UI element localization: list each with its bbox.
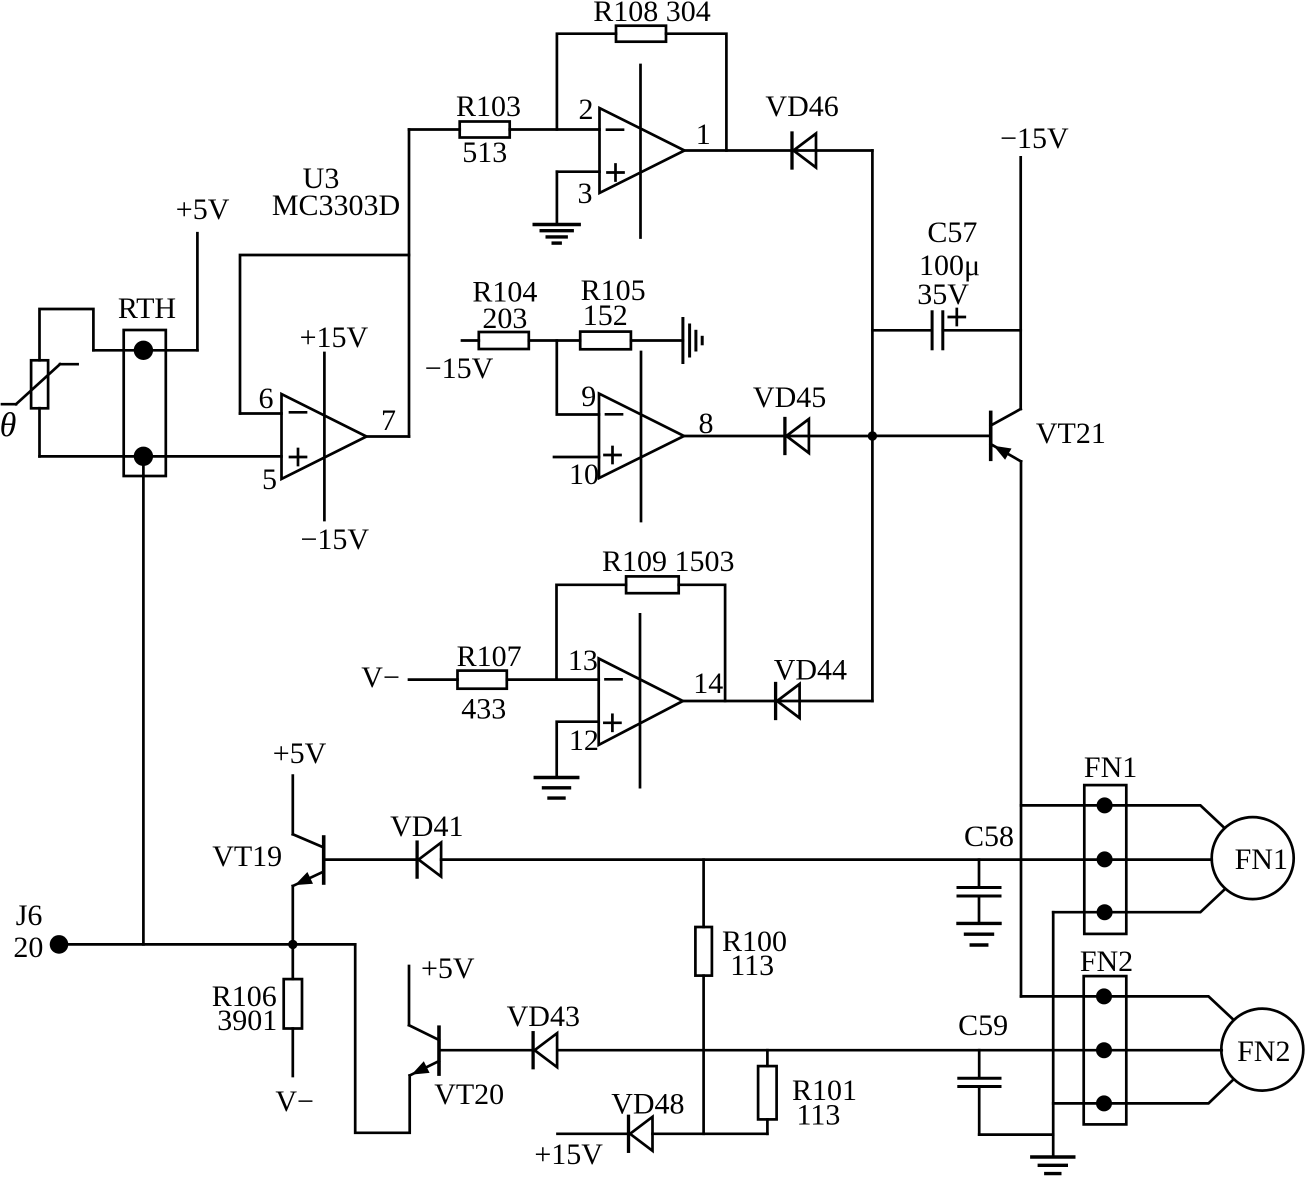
svg-text:R107: R107 bbox=[457, 640, 522, 673]
power rail line through U3A bbox=[639, 65, 642, 238]
svg-text:VD41: VD41 bbox=[390, 810, 463, 843]
svg-text:VD46: VD46 bbox=[765, 90, 838, 123]
resistor R105 152 bbox=[580, 274, 645, 349]
svg-text:C57: C57 bbox=[927, 216, 977, 249]
pin 6 bbox=[240, 382, 282, 415]
wire to FN2 pin1 bbox=[1021, 995, 1104, 998]
wire R103 right to pin 2 bbox=[510, 128, 600, 131]
connector FN2 bbox=[1080, 945, 1133, 1124]
pin 5 bbox=[262, 463, 277, 496]
diode VD41 bbox=[390, 810, 463, 877]
svg-text:+5V: +5V bbox=[421, 952, 475, 985]
pin 1 output wire bbox=[685, 118, 873, 151]
svg-text:C58: C58 bbox=[964, 820, 1014, 853]
wire RTH pin2 down to J6 row bbox=[142, 456, 145, 944]
transistor VT21 (PNP) bbox=[872, 409, 1106, 461]
svg-text:433: 433 bbox=[461, 693, 506, 726]
ground (main bottom) bbox=[1032, 1157, 1074, 1174]
svg-text:VT20: VT20 bbox=[434, 1078, 504, 1111]
pin 2 bbox=[579, 93, 594, 126]
svg-text:1: 1 bbox=[696, 118, 711, 151]
wire R104 to R105 bbox=[529, 339, 580, 342]
svg-text:VD48: VD48 bbox=[611, 1088, 684, 1121]
pin 10 stub bbox=[554, 457, 599, 491]
pin 12 bbox=[557, 722, 599, 777]
pin 7 bbox=[367, 404, 410, 437]
op-amp U3 section D (pins 13,12 -> 14) bbox=[599, 659, 683, 745]
node V- (below R106) bbox=[275, 1085, 314, 1118]
svg-text:R109 1503: R109 1503 bbox=[602, 545, 735, 578]
svg-text:3901: 3901 bbox=[217, 1004, 277, 1037]
svg-text:C59: C59 bbox=[958, 1009, 1008, 1042]
resistor R108 304 (feedback) bbox=[593, 0, 711, 42]
wire FN1 pin1 to fan bbox=[1105, 805, 1224, 827]
pin 14 output wire bbox=[683, 667, 873, 701]
node FN1 pin3 bbox=[1097, 904, 1113, 920]
wire R105 to ground bbox=[631, 339, 683, 342]
svg-text:5: 5 bbox=[262, 463, 277, 496]
wire VD48 to R100/R101 bottoms bbox=[653, 1132, 768, 1135]
svg-text:+5V: +5V bbox=[273, 737, 327, 770]
svg-text:R108 304: R108 304 bbox=[593, 0, 711, 28]
svg-text:J6: J6 bbox=[16, 899, 43, 932]
pin 9 bbox=[581, 380, 596, 413]
wire J6 row bbox=[59, 943, 355, 946]
power rail line through U3D bbox=[639, 614, 642, 787]
svg-text:8: 8 bbox=[699, 407, 714, 440]
resistor R109 1503 (feedback) bbox=[602, 545, 735, 593]
connector RTH bbox=[118, 292, 176, 476]
svg-text:7: 7 bbox=[381, 404, 396, 437]
svg-text:VD45: VD45 bbox=[753, 381, 826, 414]
svg-text:113: 113 bbox=[797, 1099, 841, 1132]
svg-text:FN2: FN2 bbox=[1080, 945, 1133, 978]
wire main vertical (VD46/VD45/VD44 to VT21 base) bbox=[871, 151, 874, 702]
svg-text:2: 2 bbox=[579, 93, 594, 126]
svg-text:13: 13 bbox=[568, 644, 598, 677]
wire to FN1 pin1 bbox=[1021, 804, 1105, 807]
node FN2 pin3 bbox=[1096, 1095, 1112, 1111]
svg-text:FN1: FN1 bbox=[1084, 751, 1137, 784]
wire VT20 base to VD43 bbox=[439, 1049, 533, 1052]
wire U3B feedback (7 to 6) bbox=[240, 255, 409, 414]
svg-text:6: 6 bbox=[259, 382, 274, 415]
svg-text:VD44: VD44 bbox=[774, 654, 847, 687]
transistor VT20 (NPN) bbox=[409, 1025, 504, 1111]
svg-text:9: 9 bbox=[581, 380, 596, 413]
ground (rotated, after R105) bbox=[683, 319, 702, 363]
svg-text:513: 513 bbox=[462, 136, 507, 169]
resistor R107 433 bbox=[457, 640, 522, 726]
op-amp U3 section A (pins 2,3 -> 1) bbox=[600, 108, 685, 193]
svg-text:VD43: VD43 bbox=[507, 1000, 580, 1033]
resistor R103 513 bbox=[456, 90, 521, 169]
svg-text:113: 113 bbox=[730, 949, 774, 982]
node FN1 pin1 bbox=[1097, 797, 1113, 813]
wire R107 to pin 13 bbox=[507, 678, 599, 681]
svg-text:V−: V− bbox=[361, 661, 400, 694]
resistor R101 113 bbox=[758, 1050, 857, 1134]
svg-text:FN2: FN2 bbox=[1237, 1035, 1290, 1068]
wire RTH pin2 row to op-amp pin5 bbox=[40, 455, 282, 458]
power +15V stub (VD48) bbox=[534, 1134, 628, 1171]
fan motor FN1 bbox=[1212, 817, 1294, 899]
svg-text:3: 3 bbox=[578, 177, 593, 210]
svg-text:+5V: +5V bbox=[176, 193, 230, 226]
transistor VT19 (NPN) bbox=[212, 834, 324, 944]
diode VD45 bbox=[753, 381, 826, 454]
svg-text:FN1: FN1 bbox=[1235, 843, 1288, 876]
pin 8 output wire bbox=[684, 407, 872, 440]
svg-text:20: 20 bbox=[13, 931, 43, 964]
wire R104/R105 node down to pin 9 bbox=[557, 341, 599, 415]
svg-text:203: 203 bbox=[482, 302, 527, 335]
diode VD46 bbox=[765, 90, 838, 168]
svg-text:−15V: −15V bbox=[1000, 122, 1069, 155]
svg-text:12: 12 bbox=[569, 724, 599, 757]
pin 3 bbox=[557, 172, 600, 224]
wire ground rail (FN pin3s) bbox=[1052, 912, 1055, 1156]
svg-text:V−: V− bbox=[275, 1085, 314, 1118]
wire thermistor bottom bbox=[38, 408, 41, 456]
node FN2 pin2 bbox=[1096, 1042, 1112, 1058]
node FN2 pin1 bbox=[1096, 988, 1112, 1004]
node VT19 emitter / R106 junction bbox=[288, 940, 297, 949]
op-amp U3 MC3303D (section B pins 5,6,7) bbox=[272, 162, 400, 479]
svg-text:+15V: +15V bbox=[300, 321, 369, 354]
wire J6 row to VT20 emitter bbox=[355, 944, 410, 1132]
wire VT21 emitter down to fans bbox=[1020, 461, 1023, 996]
node FN1 pin2 bbox=[1097, 851, 1113, 867]
thermistor RT theta bbox=[0, 360, 78, 444]
wire VD43 to C59/FN2 pin2 and fan bbox=[558, 1049, 1222, 1052]
resistor R106 3901 bbox=[212, 944, 302, 1076]
power +5V stub (VT19) bbox=[273, 737, 327, 834]
ground (C58) bbox=[958, 923, 1000, 945]
diode VD43 bbox=[507, 1000, 580, 1068]
op-amp U3 section C (pins 9,10 -> 8) bbox=[599, 394, 684, 479]
fan motor FN2 bbox=[1221, 1009, 1303, 1091]
svg-text:VT19: VT19 bbox=[212, 840, 282, 873]
svg-text:MC3303D: MC3303D bbox=[272, 189, 400, 222]
capacitor C59 bbox=[958, 1009, 1008, 1135]
ground (pin 3) bbox=[534, 225, 579, 244]
diode VD48 bbox=[611, 1088, 684, 1152]
resistor R104 203 bbox=[425, 276, 538, 386]
capacitor C57 100u 35V bbox=[872, 216, 1020, 349]
node RTH pin2 bbox=[134, 447, 153, 466]
svg-text:35V: 35V bbox=[917, 278, 969, 311]
wire FN2 pin3 to fan and ground bbox=[1053, 1080, 1233, 1103]
svg-text:R103: R103 bbox=[456, 90, 521, 123]
power rail line through U3B (+15V/-15V) bbox=[300, 321, 370, 556]
wire U3A feedback (1 to 2) bbox=[557, 34, 727, 151]
power +5V stub (VT20) bbox=[409, 952, 475, 1025]
power rail line through U3C bbox=[640, 352, 643, 521]
wire thermistor top to RTH pin1 bbox=[40, 309, 94, 360]
wire FN2 pin1 to fan bbox=[1104, 996, 1233, 1019]
svg-text:−15V: −15V bbox=[301, 523, 370, 556]
wire U3B output vertical to R103 bbox=[409, 130, 460, 437]
node V- input bbox=[361, 661, 457, 694]
svg-text:+15V: +15V bbox=[534, 1138, 603, 1171]
resistor R100 113 bbox=[695, 860, 787, 1134]
node RTH pin1 bbox=[134, 341, 153, 360]
ground (pin 12) bbox=[535, 778, 578, 799]
wire C59 to ground rail bbox=[979, 1133, 1053, 1136]
diode VD44 bbox=[774, 654, 847, 719]
node J6 pin 20 bbox=[13, 899, 68, 964]
capacitor C58 bbox=[958, 820, 1014, 923]
node junction VD45/VT21 base bbox=[868, 431, 877, 440]
wire U3D feedback (14 to 13) bbox=[557, 585, 726, 701]
svg-text:VT21: VT21 bbox=[1036, 417, 1106, 450]
svg-text:10: 10 bbox=[569, 458, 599, 491]
svg-text:152: 152 bbox=[583, 299, 628, 332]
svg-text:14: 14 bbox=[693, 667, 723, 700]
wire FN1 pin3 to fan and ground bbox=[1053, 890, 1224, 912]
wire VD41 to C58/FN1 pin2 and fan bbox=[441, 858, 1212, 861]
svg-text:θ: θ bbox=[0, 407, 16, 444]
power +5V stub (RTH) bbox=[176, 193, 230, 350]
svg-text:−15V: −15V bbox=[425, 352, 494, 385]
wire RTH pin1 row bbox=[93, 349, 197, 352]
power -15V rail bbox=[1000, 122, 1069, 409]
pin 13 bbox=[568, 644, 598, 677]
connector FN1 bbox=[1084, 751, 1137, 934]
wire VT19 base to VD41 bbox=[324, 858, 417, 861]
svg-text:RTH: RTH bbox=[118, 292, 176, 325]
